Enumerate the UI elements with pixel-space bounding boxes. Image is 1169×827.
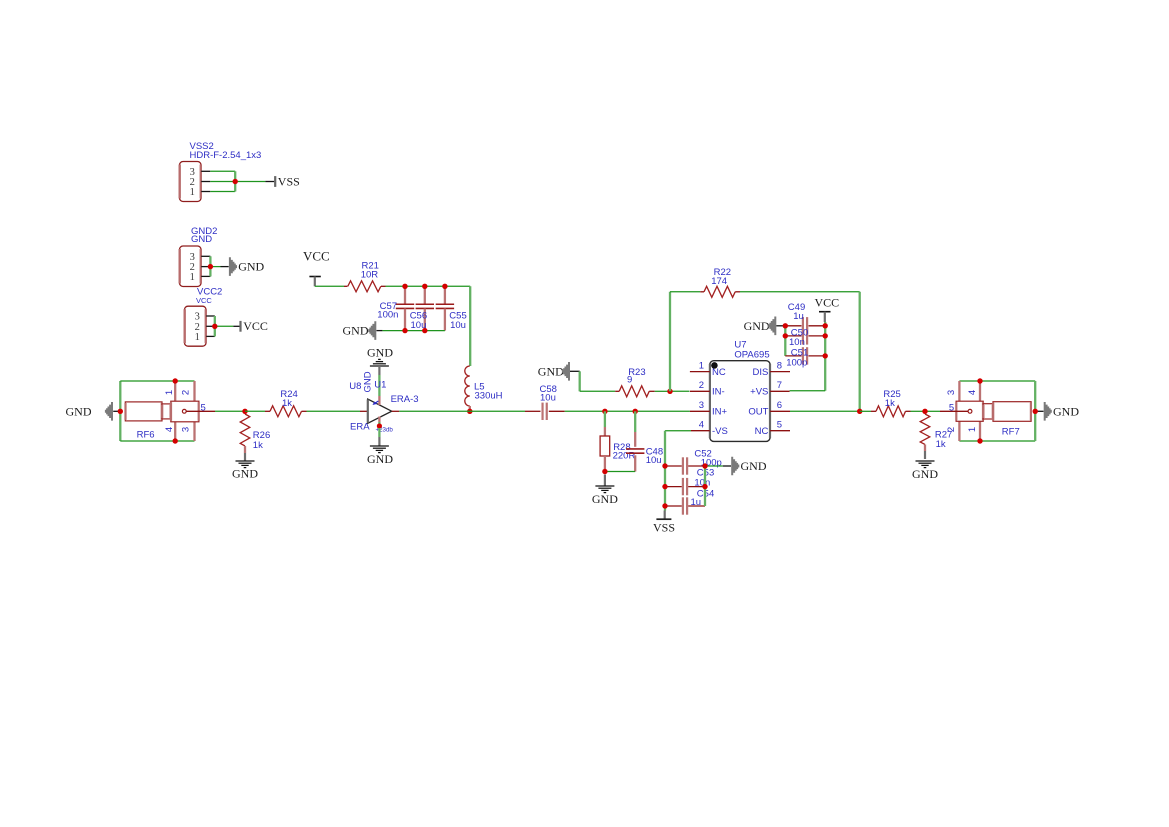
svg-text:RF6: RF6 bbox=[137, 430, 155, 441]
svg-text:GND: GND bbox=[238, 260, 264, 274]
junction bbox=[662, 463, 667, 468]
ground bbox=[731, 457, 739, 476]
svg-text:VCC: VCC bbox=[815, 296, 840, 310]
op-amp U1 ERA-3 bbox=[360, 410, 368, 412]
connector RF6 pins bbox=[174, 381, 176, 401]
wire bbox=[740, 291, 860, 293]
wire bbox=[378, 366, 380, 375]
ground bbox=[370, 445, 389, 447]
junction bbox=[922, 409, 927, 414]
ground bbox=[236, 460, 255, 462]
junction bbox=[667, 389, 672, 394]
wire bbox=[824, 322, 826, 391]
capacitor C58 bbox=[525, 410, 541, 412]
connector RF7 frame bbox=[959, 380, 1035, 382]
svg-text:220R: 220R bbox=[613, 451, 636, 462]
capacitor C57 bbox=[404, 286, 406, 304]
wire bbox=[705, 465, 723, 467]
connector VSS2 bbox=[180, 162, 202, 202]
connector VCC2 bbox=[185, 306, 207, 346]
svg-text:ERA: ERA bbox=[350, 422, 370, 433]
wire bbox=[665, 430, 691, 432]
connector RF6 body bbox=[125, 402, 162, 421]
svg-text:GND: GND bbox=[191, 234, 212, 245]
svg-text:9: 9 bbox=[627, 375, 632, 386]
connector GND2 bbox=[180, 246, 202, 287]
svg-text:GND: GND bbox=[1053, 404, 1079, 418]
wire bbox=[469, 286, 471, 366]
svg-text:GND: GND bbox=[232, 467, 258, 481]
svg-text:GND: GND bbox=[367, 346, 393, 360]
svg-text:GND: GND bbox=[592, 492, 618, 506]
wire bbox=[604, 475, 606, 486]
svg-text:VSS: VSS bbox=[278, 174, 300, 188]
ground bbox=[916, 460, 935, 462]
inductor L5 bbox=[465, 366, 470, 406]
svg-text:1: 1 bbox=[967, 427, 978, 432]
wire bbox=[235, 181, 265, 183]
junction bbox=[242, 409, 247, 414]
svg-text:174: 174 bbox=[711, 276, 727, 287]
wire bbox=[565, 410, 605, 412]
junction bbox=[783, 323, 788, 328]
resistor R24 bbox=[265, 410, 270, 412]
svg-text:10u: 10u bbox=[540, 393, 556, 404]
wire bbox=[399, 410, 470, 412]
junction bbox=[233, 179, 238, 184]
wire bbox=[215, 410, 245, 412]
svg-text:ERA-3: ERA-3 bbox=[391, 394, 419, 405]
pin 3 IN+ bbox=[690, 410, 710, 412]
node VSS bbox=[664, 511, 666, 519]
svg-text:NC: NC bbox=[755, 426, 769, 437]
node VSS bbox=[274, 176, 276, 187]
resistor R22 bbox=[700, 291, 704, 293]
wire bbox=[382, 330, 445, 332]
connector RF7 body bbox=[956, 401, 983, 421]
wire bbox=[605, 471, 635, 473]
junction bbox=[1033, 409, 1038, 414]
svg-text:OPA695: OPA695 bbox=[734, 349, 769, 360]
svg-text:+VS: +VS bbox=[750, 387, 768, 398]
capacitor C51 bbox=[785, 355, 801, 357]
wire bbox=[669, 292, 671, 392]
svg-text:1: 1 bbox=[195, 332, 200, 343]
capacitor C56 bbox=[424, 286, 426, 304]
connector RF6 frame bbox=[119, 381, 121, 441]
svg-text:1: 1 bbox=[190, 272, 195, 283]
svg-text:100p: 100p bbox=[786, 358, 807, 369]
svg-text:2: 2 bbox=[699, 380, 704, 391]
svg-text:100n: 100n bbox=[377, 310, 398, 321]
svg-text:RF7: RF7 bbox=[1002, 427, 1020, 438]
capacitor C53 bbox=[665, 486, 682, 488]
pin 6 OUT bbox=[770, 410, 790, 412]
svg-text:1k: 1k bbox=[885, 398, 895, 409]
capacitor C49 bbox=[785, 325, 801, 327]
junction bbox=[467, 409, 472, 414]
svg-text:10R: 10R bbox=[361, 269, 379, 280]
ground bbox=[229, 257, 237, 276]
capacitor C52 bbox=[665, 465, 682, 467]
svg-text:10u: 10u bbox=[646, 455, 662, 466]
svg-text:2: 2 bbox=[181, 390, 192, 395]
svg-text:IN+: IN+ bbox=[712, 407, 728, 418]
ground bbox=[113, 410, 120, 412]
svg-text:HDR-F-2.54_1x3: HDR-F-2.54_1x3 bbox=[190, 150, 262, 161]
wire bbox=[245, 410, 265, 412]
junction bbox=[602, 409, 607, 414]
svg-text:4: 4 bbox=[967, 390, 978, 395]
resistor R21 bbox=[344, 285, 348, 287]
junction bbox=[857, 409, 862, 414]
pin 1 NC bbox=[690, 371, 710, 373]
svg-text:GND: GND bbox=[538, 364, 564, 378]
svg-text:4: 4 bbox=[699, 420, 704, 431]
wire bbox=[201, 170, 210, 172]
svg-text:6: 6 bbox=[777, 400, 782, 411]
svg-text:5: 5 bbox=[777, 420, 782, 431]
svg-text:7: 7 bbox=[777, 380, 782, 391]
svg-text:1k: 1k bbox=[282, 398, 292, 409]
svg-text:1k: 1k bbox=[936, 439, 946, 450]
svg-text:1u: 1u bbox=[793, 311, 804, 322]
svg-text:1u: 1u bbox=[691, 497, 702, 508]
svg-text:VCC: VCC bbox=[243, 319, 268, 333]
ground bbox=[1035, 410, 1043, 412]
resistor R26 bbox=[240, 414, 250, 446]
svg-text:DIS: DIS bbox=[753, 367, 769, 378]
svg-text:IN-: IN- bbox=[712, 387, 725, 398]
pin 5 lead bbox=[186, 410, 215, 412]
wire bbox=[790, 410, 860, 412]
ground bbox=[595, 485, 614, 487]
svg-text:1k: 1k bbox=[253, 440, 263, 451]
wire bbox=[315, 285, 344, 287]
junction bbox=[402, 284, 407, 289]
svg-text:OUT: OUT bbox=[748, 407, 768, 418]
wire bbox=[655, 390, 670, 392]
svg-text:1: 1 bbox=[190, 187, 195, 198]
svg-text:3: 3 bbox=[699, 400, 704, 411]
wire bbox=[670, 291, 700, 293]
wire bbox=[924, 451, 926, 459]
pin 2 IN- bbox=[690, 390, 710, 392]
junction bbox=[602, 469, 607, 474]
svg-text:10u: 10u bbox=[450, 320, 466, 331]
wire bbox=[860, 410, 871, 412]
resistor R25 bbox=[871, 410, 876, 412]
junction bbox=[118, 409, 123, 414]
resistor R23 bbox=[615, 390, 619, 392]
capacitor C55 bbox=[444, 286, 446, 304]
svg-text:VCC: VCC bbox=[303, 248, 330, 263]
wire bbox=[244, 453, 246, 461]
op-amp U7 OPA695 bbox=[710, 361, 770, 442]
svg-text:GND: GND bbox=[367, 452, 393, 466]
svg-text:8: 8 bbox=[777, 360, 782, 371]
wire bbox=[209, 256, 211, 276]
wire bbox=[201, 255, 210, 257]
svg-text:GND: GND bbox=[744, 319, 770, 333]
svg-text:VSS: VSS bbox=[653, 520, 675, 534]
svg-text:-VS: -VS bbox=[712, 426, 728, 437]
svg-text:GND: GND bbox=[741, 459, 767, 473]
svg-text:1: 1 bbox=[164, 390, 175, 395]
wire bbox=[378, 417, 380, 423]
svg-text:1: 1 bbox=[699, 360, 704, 371]
svg-text:VCC: VCC bbox=[196, 296, 212, 305]
svg-text:GND: GND bbox=[343, 324, 369, 338]
svg-text:U1: U1 bbox=[374, 380, 386, 391]
pin 8 DIS bbox=[770, 371, 790, 373]
svg-text:330uH: 330uH bbox=[475, 391, 503, 402]
connector RF7 pins bbox=[958, 381, 960, 401]
svg-text:U8: U8 bbox=[349, 381, 361, 392]
svg-text:GND: GND bbox=[66, 404, 92, 418]
resistor R27 bbox=[920, 414, 930, 444]
wire bbox=[784, 326, 786, 356]
svg-text:2: 2 bbox=[946, 427, 957, 432]
resistor R28 bbox=[604, 411, 606, 427]
svg-text:4: 4 bbox=[164, 427, 175, 432]
svg-text:NC: NC bbox=[712, 367, 726, 378]
wire bbox=[210, 170, 235, 172]
wire bbox=[386, 285, 471, 287]
svg-text:GND: GND bbox=[362, 371, 373, 392]
junction bbox=[212, 324, 217, 329]
svg-text:3: 3 bbox=[181, 427, 192, 432]
wire bbox=[206, 315, 215, 317]
pin 5 lead bbox=[940, 410, 968, 412]
node VCC bbox=[239, 321, 241, 332]
wire bbox=[214, 316, 216, 336]
wire bbox=[570, 370, 580, 372]
pin 5 NC bbox=[770, 430, 790, 432]
wire bbox=[911, 410, 926, 412]
capacitor C50 bbox=[785, 335, 801, 337]
junction bbox=[208, 264, 213, 269]
capacitor C54 bbox=[665, 505, 682, 507]
pin 4 -VS bbox=[691, 430, 710, 432]
wire bbox=[704, 466, 706, 506]
svg-text:GND: GND bbox=[912, 467, 938, 481]
junction bbox=[402, 328, 407, 333]
svg-text:3: 3 bbox=[946, 390, 957, 395]
capacitor C48 bbox=[634, 411, 636, 432]
pin 7 +VS bbox=[770, 390, 790, 392]
ground bbox=[377, 330, 383, 332]
